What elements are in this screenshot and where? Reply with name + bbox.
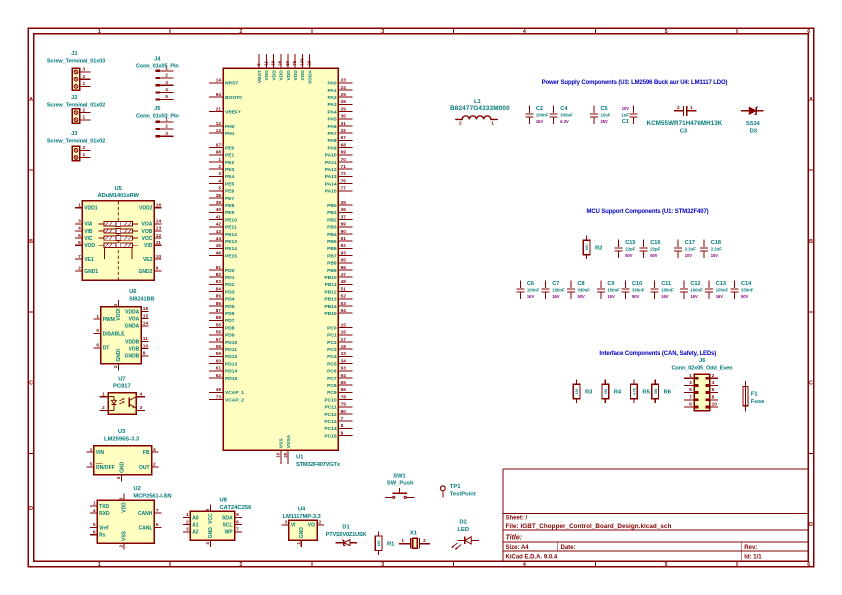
svg-text:PC5: PC5 — [327, 361, 337, 367]
svg-text:5: 5 — [689, 387, 692, 393]
svg-text:PD7: PD7 — [225, 318, 235, 324]
svg-text:330nF: 330nF — [578, 288, 591, 293]
svg-text:BOOT0: BOOT0 — [225, 95, 242, 101]
svg-text:4: 4 — [93, 508, 96, 514]
crystal X1 — [399, 531, 430, 549]
svg-text:58: 58 — [216, 344, 222, 349]
svg-text:C14: C14 — [741, 281, 752, 287]
svg-text:16V: 16V — [527, 294, 535, 299]
svg-text:GNDB: GNDB — [125, 354, 140, 360]
svg-text:Conn_01x03_Pin: Conn_01x03_Pin — [136, 113, 179, 119]
svg-text:75: 75 — [292, 60, 297, 66]
resistor R5 — [631, 380, 651, 404]
svg-text:47: 47 — [341, 272, 347, 277]
svg-text:PB4: PB4 — [327, 232, 337, 238]
svg-text:NRST: NRST — [225, 81, 238, 87]
svg-text:VOC: VOC — [142, 236, 153, 242]
svg-text:76: 76 — [341, 178, 347, 183]
svg-text:23: 23 — [341, 78, 347, 83]
capacitor C13 — [705, 281, 728, 300]
svg-text:8: 8 — [341, 423, 344, 428]
svg-text:PC1: PC1 — [327, 333, 337, 339]
resistor R6 — [652, 380, 672, 404]
svg-text:SS34: SS34 — [746, 121, 761, 127]
svg-text:70: 70 — [341, 157, 347, 162]
svg-text:7: 7 — [156, 508, 159, 514]
svg-text:C8: C8 — [578, 281, 585, 287]
svg-text:3: 3 — [118, 497, 123, 500]
svg-text:C15: C15 — [625, 240, 635, 246]
svg-text:VDD: VDD — [279, 70, 285, 81]
svg-text:OUT: OUT — [139, 465, 150, 471]
svg-text:30: 30 — [341, 114, 347, 119]
svg-text:U4: U4 — [298, 507, 306, 513]
svg-text:Conn_01x05_Pin: Conn_01x05_Pin — [136, 64, 179, 70]
svg-text:U8: U8 — [220, 498, 228, 504]
svg-text:VDD: VDD — [264, 70, 270, 81]
svg-text:VOA: VOA — [128, 317, 139, 323]
svg-text:PB0: PB0 — [327, 203, 337, 209]
svg-text:4: 4 — [712, 380, 715, 386]
connector J1 Screw_Terminal_01x03 — [47, 51, 105, 90]
svg-text:VI: VI — [291, 523, 296, 529]
svg-text:LED: LED — [457, 527, 469, 533]
svg-text:GND2: GND2 — [138, 269, 152, 275]
svg-text:GNDI: GNDI — [116, 348, 122, 361]
svg-text:VDDB: VDDB — [125, 339, 140, 345]
svg-text:VDDA: VDDA — [125, 309, 140, 315]
svg-text:PB14: PB14 — [324, 304, 337, 310]
svg-text:PB9: PB9 — [327, 268, 337, 274]
svg-text:L1: L1 — [474, 99, 482, 105]
svg-text:KiCad E.D.A. 9.0.4: KiCad E.D.A. 9.0.4 — [506, 554, 558, 560]
svg-text:16V: 16V — [552, 294, 560, 299]
svg-text:PB1: PB1 — [327, 210, 337, 216]
svg-text:GNDA: GNDA — [125, 324, 140, 330]
EEPROM U8 CAT24C256 — [183, 498, 252, 547]
svg-text:Screw_Terminal_01x03: Screw_Terminal_01x03 — [47, 58, 105, 64]
svg-text:GND: GND — [208, 527, 214, 539]
svg-text:PH1: PH1 — [225, 131, 235, 137]
svg-text:3: 3 — [218, 171, 221, 176]
svg-text:PA10: PA10 — [325, 153, 337, 159]
svg-text:3: 3 — [82, 67, 85, 73]
svg-text:12: 12 — [216, 121, 222, 126]
svg-text:Size: A4: Size: A4 — [506, 545, 530, 551]
svg-text:VIB: VIB — [84, 229, 93, 235]
svg-text:PWM: PWM — [103, 317, 115, 323]
svg-text:PD0: PD0 — [225, 268, 235, 274]
svg-text:13: 13 — [216, 128, 222, 133]
svg-text:U2: U2 — [133, 486, 140, 492]
svg-text:68: 68 — [341, 142, 347, 147]
svg-text:VE2: VE2 — [143, 257, 153, 263]
capacitor C17 — [674, 240, 696, 259]
switch SW1 SW_Push — [385, 474, 414, 499]
svg-text:VSSA: VSSA — [286, 434, 292, 448]
svg-text:21: 21 — [216, 106, 222, 111]
svg-text:PC3: PC3 — [327, 347, 337, 353]
svg-text:C13: C13 — [716, 281, 726, 287]
svg-text:39: 39 — [216, 200, 222, 205]
svg-text:PD5: PD5 — [225, 304, 235, 310]
svg-text:50V: 50V — [632, 294, 640, 299]
svg-text:12: 12 — [156, 233, 162, 239]
svg-text:1uF: 1uF — [621, 113, 629, 118]
svg-text:GND1: GND1 — [84, 269, 98, 275]
svg-text:86: 86 — [216, 301, 222, 306]
svg-text:11: 11 — [263, 61, 268, 66]
svg-text:4: 4 — [139, 391, 142, 397]
svg-text:Screw_Terminal_01x02: Screw_Terminal_01x02 — [47, 102, 105, 108]
svg-text:Fuse: Fuse — [751, 399, 765, 405]
svg-text:VDDA: VDDA — [307, 70, 313, 84]
svg-text:PTVS5V0Z1USK: PTVS5V0Z1USK — [326, 532, 367, 538]
svg-text:1: 1 — [690, 105, 693, 111]
svg-text:U1: U1 — [296, 455, 304, 461]
svg-text:PC4: PC4 — [327, 354, 337, 360]
svg-text:PB7: PB7 — [327, 253, 337, 259]
svg-text:3: 3 — [381, 29, 384, 35]
svg-text:PA0: PA0 — [327, 81, 336, 87]
svg-text:PB2: PB2 — [327, 217, 337, 223]
svg-text:2: 2 — [102, 405, 105, 411]
svg-text:10: 10 — [156, 254, 162, 260]
svg-text:2: 2 — [218, 164, 221, 169]
capacitor C12 — [680, 281, 703, 300]
svg-text:PD6: PD6 — [225, 311, 235, 317]
svg-text:Interface Components (CAN, Saf: Interface Components (CAN, Safety, LEDs) — [599, 351, 716, 357]
svg-text:PA2: PA2 — [327, 95, 336, 101]
svg-text:78: 78 — [341, 394, 347, 399]
svg-text:PE2: PE2 — [225, 160, 235, 166]
svg-text:VDD: VDD — [271, 70, 277, 81]
svg-text:1: 1 — [186, 512, 189, 518]
svg-text:10: 10 — [143, 343, 149, 349]
svg-text:A0: A0 — [192, 515, 199, 521]
svg-text:83: 83 — [216, 279, 222, 284]
svg-text:1: 1 — [90, 447, 93, 453]
svg-text:6: 6 — [712, 387, 715, 393]
svg-text:U5: U5 — [114, 186, 122, 192]
svg-text:24: 24 — [341, 85, 347, 90]
resistor R4 — [602, 380, 622, 404]
svg-text:2: 2 — [677, 105, 680, 111]
svg-text:VREF+: VREF+ — [225, 109, 241, 115]
svg-text:43: 43 — [216, 229, 222, 234]
svg-text:5: 5 — [236, 512, 239, 518]
svg-text:1: 1 — [98, 562, 101, 568]
svg-text:6: 6 — [96, 343, 99, 349]
svg-text:52: 52 — [341, 294, 347, 299]
svg-text:C6: C6 — [527, 281, 534, 287]
svg-text:5: 5 — [90, 462, 93, 468]
svg-text:1: 1 — [96, 314, 99, 320]
svg-text:100nF: 100nF — [607, 288, 620, 293]
svg-text:34: 34 — [341, 358, 347, 363]
svg-text:1: 1 — [78, 202, 81, 208]
svg-text:U6: U6 — [129, 289, 137, 295]
svg-text:TestPoint: TestPoint — [450, 491, 476, 497]
svg-text:54: 54 — [341, 308, 347, 313]
svg-text:89: 89 — [341, 222, 347, 227]
svg-text:63: 63 — [341, 366, 347, 371]
svg-text:50V: 50V — [741, 294, 749, 299]
svg-text:D2: D2 — [459, 519, 466, 525]
svg-text:92: 92 — [341, 243, 347, 248]
svg-text:3: 3 — [186, 527, 189, 533]
capacitor C5 — [590, 106, 611, 125]
svg-text:94: 94 — [216, 92, 222, 97]
svg-text:3: 3 — [689, 380, 692, 386]
svg-text:17: 17 — [341, 337, 347, 342]
svg-text:PE5: PE5 — [225, 181, 235, 187]
svg-text:11: 11 — [156, 240, 161, 246]
svg-text:35: 35 — [341, 200, 347, 205]
svg-text:4: 4 — [205, 542, 210, 545]
svg-text:VID: VID — [144, 243, 153, 249]
svg-text:VIC: VIC — [84, 236, 93, 242]
svg-text:PC9: PC9 — [327, 390, 337, 396]
svg-text:1: 1 — [82, 152, 85, 158]
svg-text:20: 20 — [283, 452, 288, 458]
svg-text:10V: 10V — [711, 253, 719, 258]
svg-text:50V: 50V — [625, 253, 633, 258]
svg-text:100nF: 100nF — [527, 288, 540, 293]
svg-text:PA4: PA4 — [327, 109, 336, 115]
svg-text:50: 50 — [285, 60, 290, 66]
svg-text:100nF: 100nF — [716, 288, 729, 293]
svg-text:16V: 16V — [661, 294, 669, 299]
svg-text:25V: 25V — [601, 119, 609, 124]
svg-text:C16: C16 — [650, 240, 660, 246]
svg-text:ADuM1401xRW: ADuM1401xRW — [98, 193, 140, 199]
svg-text:PA3: PA3 — [327, 102, 336, 108]
svg-text:38: 38 — [216, 193, 222, 198]
resistor R3 — [573, 380, 593, 404]
svg-text:PA12: PA12 — [325, 167, 337, 173]
svg-text:3: 3 — [381, 562, 384, 568]
CAN transceiver U2 MCP2561-I-SN — [90, 486, 172, 550]
svg-text:F1: F1 — [751, 392, 759, 398]
svg-text:U7: U7 — [118, 376, 125, 382]
capacitor C2 — [525, 106, 548, 125]
title block — [503, 469, 808, 561]
svg-text:PE14: PE14 — [225, 246, 237, 252]
svg-text:96: 96 — [341, 265, 347, 270]
svg-text:PA15: PA15 — [325, 189, 337, 195]
svg-text:45: 45 — [216, 243, 222, 248]
svg-text:10: 10 — [276, 452, 281, 458]
svg-text:22pF: 22pF — [650, 247, 660, 252]
svg-text:C7: C7 — [552, 281, 559, 287]
svg-text:PA1: PA1 — [327, 88, 336, 94]
svg-text:J3: J3 — [71, 131, 78, 137]
svg-text:R3: R3 — [585, 389, 593, 395]
svg-text:4: 4 — [78, 226, 81, 232]
svg-text:120: 120 — [575, 388, 579, 394]
svg-text:25: 25 — [341, 92, 347, 97]
svg-text:J2: J2 — [71, 95, 77, 101]
svg-text:SI8241BB: SI8241BB — [129, 296, 154, 302]
LED D2 — [451, 519, 479, 549]
svg-text:46: 46 — [216, 250, 222, 255]
svg-text:VSS: VSS — [279, 438, 285, 449]
svg-text:Rev:: Rev: — [744, 545, 757, 551]
svg-text:1: 1 — [165, 116, 168, 122]
svg-text:J4: J4 — [154, 56, 161, 62]
svg-text:13: 13 — [156, 226, 162, 232]
svg-text:2: 2 — [239, 562, 242, 568]
capacitor C15 — [615, 240, 636, 259]
svg-text:PB6: PB6 — [327, 246, 337, 252]
svg-text:82: 82 — [216, 272, 222, 277]
svg-text:2: 2 — [165, 124, 168, 130]
svg-text:79: 79 — [341, 402, 347, 407]
digital isolator U5 ADuM1401xRW — [75, 186, 161, 280]
svg-text:10V: 10V — [685, 253, 693, 258]
svg-text:2: 2 — [165, 73, 168, 79]
svg-text:22pF: 22pF — [625, 247, 635, 252]
svg-text:C5: C5 — [601, 106, 608, 112]
svg-text:1: 1 — [93, 501, 96, 507]
svg-text:PB3: PB3 — [327, 225, 337, 231]
svg-text:3: 3 — [285, 520, 288, 526]
svg-text:PD4: PD4 — [225, 297, 235, 303]
svg-text:51: 51 — [341, 286, 347, 291]
svg-text:PA8: PA8 — [327, 138, 336, 144]
svg-text:B: B — [809, 239, 813, 245]
svg-text:5: 5 — [165, 94, 168, 100]
svg-text:1: 1 — [401, 538, 404, 544]
diode D3 SS34 — [741, 107, 763, 134]
svg-text:PA14: PA14 — [325, 181, 337, 187]
svg-text:9: 9 — [143, 351, 146, 357]
svg-text:1: 1 — [491, 121, 494, 127]
svg-text:64: 64 — [341, 373, 347, 378]
svg-text:2.2uF: 2.2uF — [711, 247, 723, 252]
svg-text:9: 9 — [341, 430, 344, 435]
svg-text:32: 32 — [341, 128, 347, 133]
svg-text:2: 2 — [459, 121, 462, 127]
svg-text:PA7: PA7 — [327, 131, 336, 137]
capacitor C4 — [550, 106, 573, 125]
svg-text:VO: VO — [308, 523, 315, 529]
svg-text:Date:: Date: — [561, 545, 576, 551]
svg-text:14: 14 — [143, 321, 149, 327]
svg-text:PD15: PD15 — [225, 376, 238, 382]
svg-text:STM32F407VGTx: STM32F407VGTx — [296, 462, 341, 468]
svg-text:R6: R6 — [664, 389, 672, 395]
svg-text:98: 98 — [216, 150, 222, 155]
resistor R2 — [583, 236, 602, 260]
svg-text:PB13: PB13 — [324, 297, 337, 303]
capacitor C9 — [597, 281, 620, 300]
capacitor C16 — [640, 240, 661, 259]
svg-text:Rs: Rs — [99, 533, 106, 539]
svg-text:10V: 10V — [622, 106, 630, 111]
svg-text:6: 6 — [78, 240, 81, 246]
svg-text:100nF: 100nF — [690, 288, 703, 293]
svg-text:90: 90 — [341, 229, 347, 234]
svg-text:PA6: PA6 — [327, 124, 336, 130]
regulator U3 LM2596S-3.3 — [87, 429, 159, 481]
svg-text:VDD: VDD — [300, 70, 306, 81]
svg-text:4: 4 — [523, 562, 526, 568]
svg-text:72: 72 — [341, 171, 347, 176]
svg-text:100nF: 100nF — [552, 288, 565, 293]
svg-text:1: 1 — [689, 373, 692, 379]
svg-text:16V: 16V — [607, 294, 615, 299]
svg-text:42: 42 — [216, 222, 222, 227]
svg-text:330nF: 330nF — [632, 288, 645, 293]
svg-text:49: 49 — [216, 387, 222, 392]
svg-text:44: 44 — [216, 236, 222, 241]
svg-text:B82477G4333M000: B82477G4333M000 — [450, 105, 510, 112]
svg-text:100: 100 — [299, 58, 304, 66]
svg-text:93: 93 — [341, 250, 347, 255]
svg-text:10: 10 — [712, 402, 718, 408]
svg-text:16V: 16V — [716, 294, 724, 299]
svg-text:330uF: 330uF — [560, 113, 573, 118]
svg-text:C: C — [29, 381, 33, 387]
svg-text:66: 66 — [341, 387, 347, 392]
svg-text:CAT24C256: CAT24C256 — [220, 505, 253, 511]
svg-text:R4: R4 — [614, 389, 622, 395]
svg-text:SW_Push: SW_Push — [387, 481, 414, 487]
svg-text:VBAT: VBAT — [257, 70, 263, 83]
svg-text:100nF: 100nF — [661, 288, 674, 293]
svg-text:TP1: TP1 — [450, 484, 461, 490]
capacitor C14 — [730, 281, 753, 300]
svg-text:ON/OFF: ON/OFF — [96, 465, 115, 471]
svg-text:VDDI: VDDI — [116, 308, 122, 321]
svg-text:7: 7 — [78, 254, 81, 260]
svg-text:10K: 10K — [377, 540, 381, 547]
svg-text:6: 6 — [807, 562, 810, 568]
svg-text:2: 2 — [118, 544, 123, 547]
svg-text:73: 73 — [216, 394, 222, 399]
svg-text:SCL: SCL — [223, 523, 233, 529]
svg-text:PD10: PD10 — [225, 340, 238, 346]
microcontroller U1 STM32F407VGTx — [209, 54, 353, 468]
svg-text:VDD: VDD — [122, 502, 128, 513]
svg-text:69: 69 — [341, 150, 347, 155]
svg-text:7: 7 — [341, 416, 344, 421]
svg-text:3: 3 — [116, 476, 121, 479]
svg-text:100nF: 100nF — [536, 113, 549, 118]
capacitor C7 — [542, 281, 565, 300]
svg-text:R2: R2 — [595, 245, 602, 251]
svg-text:PE4: PE4 — [225, 174, 235, 180]
svg-text:DT: DT — [103, 346, 110, 352]
svg-text:PC7: PC7 — [327, 376, 337, 382]
svg-text:C10: C10 — [632, 281, 642, 287]
svg-text:RXD: RXD — [99, 511, 110, 517]
fuse F1 — [743, 381, 765, 411]
svg-text:A2: A2 — [192, 530, 199, 536]
svg-text:MCU Support Components (U1: ST: MCU Support Components (U1: STM32F407) — [586, 209, 708, 215]
svg-text:37: 37 — [341, 214, 347, 219]
capacitor C1 — [621, 106, 637, 126]
svg-text:D: D — [809, 522, 813, 528]
svg-text:LM2596S-3.3: LM2596S-3.3 — [104, 437, 140, 443]
svg-text:1: 1 — [296, 542, 301, 545]
svg-text:VCAP_2: VCAP_2 — [225, 397, 244, 403]
svg-text:PC6: PC6 — [327, 369, 337, 375]
svg-text:PD9: PD9 — [225, 333, 235, 339]
svg-text:TXD: TXD — [99, 504, 109, 510]
